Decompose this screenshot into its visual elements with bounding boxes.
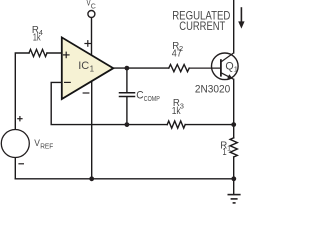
svg-text:IC: IC	[78, 60, 89, 72]
junction dot emitter node	[231, 122, 236, 127]
svg-text:1: 1	[222, 147, 227, 158]
op-amp V+ sign	[84, 40, 91, 47]
svg-text:1: 1	[227, 144, 231, 153]
op-amp V- sign	[83, 92, 90, 94]
resistor R4	[29, 49, 47, 56]
svg-text:CURRENT: CURRENT	[179, 19, 226, 33]
wire R3 to emitter node	[185, 124, 234, 126]
junction dot output	[125, 66, 130, 71]
wire node to R1	[233, 125, 235, 138]
resistor R2	[169, 65, 189, 72]
svg-text:1: 1	[90, 64, 95, 73]
capacitor Ccomp	[120, 92, 135, 94]
Vref - sign	[18, 163, 24, 165]
wire regulated current line	[233, 0, 235, 53]
op-amp - input sign	[64, 81, 71, 83]
Vc supply terminal	[88, 11, 95, 18]
wire C comp top	[126, 68, 128, 92]
svg-text:C: C	[136, 90, 143, 102]
op-amp IC1	[62, 37, 114, 99]
resistor R3	[167, 121, 185, 128]
junction dot Ccomp bottom	[125, 122, 130, 127]
wire op-amp V- pin down to bottom rail	[91, 81, 93, 179]
wire emitter down to node	[233, 79, 235, 124]
Vref + sign	[17, 116, 22, 121]
wire ground stub	[233, 179, 235, 195]
wire C comp bottom	[126, 97, 128, 125]
wire Vc terminal to op-amp V+ pin	[91, 18, 93, 56]
current direction arrow	[238, 7, 244, 28]
wire op-amp output	[113, 67, 169, 69]
svg-text:2N3020: 2N3020	[195, 84, 230, 96]
op-amp + input sign	[63, 52, 70, 59]
wire feedback from - input	[51, 82, 167, 124]
transistor Q1	[190, 53, 239, 80]
wire R4 to op-amp + input	[47, 52, 62, 54]
svg-text:1k: 1k	[33, 33, 42, 44]
resistor R1	[230, 138, 237, 157]
ground	[228, 195, 241, 203]
svg-text:COMP: COMP	[144, 94, 160, 103]
source Vref	[1, 130, 29, 158]
svg-text:1: 1	[234, 65, 238, 74]
wire left column top corner	[15, 53, 29, 130]
wire bottom rail	[15, 178, 234, 180]
svg-text:1k: 1k	[172, 106, 182, 117]
svg-text:C: C	[91, 3, 96, 10]
wire Vref bottom	[14, 158, 16, 179]
svg-text:47: 47	[172, 48, 182, 59]
svg-text:REF: REF	[40, 143, 53, 150]
junction dot bottom right	[231, 176, 236, 181]
wire R1 to bottom rail	[233, 157, 235, 179]
junction dot V- on bottom rail	[89, 176, 94, 181]
